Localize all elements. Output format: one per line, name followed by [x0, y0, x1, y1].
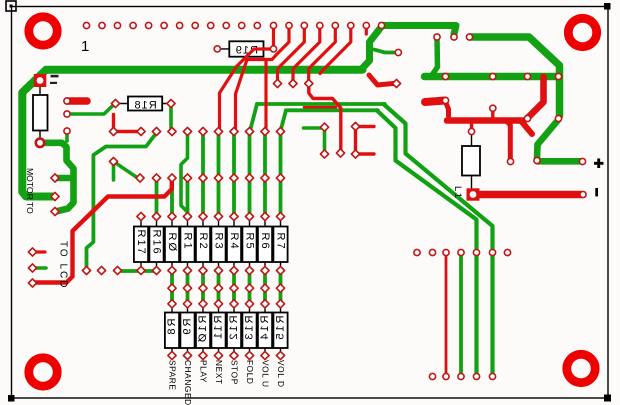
pad 398,52.5: [395, 49, 401, 55]
svg-text:1: 1: [81, 38, 89, 55]
svg-text:R6: R6: [259, 233, 271, 251]
resistor R3: [211, 227, 225, 263]
wire green branch to pad (55,178): [56, 175, 74, 182]
corner mark BR: [604, 395, 611, 402]
svg-text:NEXT: NEXT: [214, 360, 224, 385]
wire red stub to resistor top pad: [470, 121, 473, 129]
corner mark TL: [6, 1, 16, 11]
svg-text:R13: R13: [244, 316, 256, 342]
resistor R8: [165, 313, 179, 349]
wire green right elbow to plus pad: [537, 120, 581, 162]
svg-text:VOL U: VOL U: [261, 360, 271, 388]
svg-text:R12: R12: [228, 316, 240, 342]
wire red stub above pad 113,131: [112, 115, 115, 130]
mid pads y83 group: [273, 79, 281, 87]
wire green col verticals y178-216: [157, 180, 281, 214]
resistor R17: [134, 227, 148, 263]
resistor row2 leads: [172, 305, 281, 353]
wire red blob drop to bus: [446, 102, 449, 116]
mounting hole bottom-left: [29, 358, 57, 386]
resistor R2: [196, 227, 210, 263]
corner mark TR: [604, 3, 611, 10]
left column pads: [64, 98, 70, 104]
wire red C-shape: [356, 127, 375, 155]
wire red p13 rail y60 to pad 235,132: [236, 27, 290, 129]
wire red bus y120: [447, 117, 524, 124]
wire green y111 rail to right pair inner: [286, 108, 378, 112]
R19 pads: [214, 46, 220, 52]
resistor R16: [149, 227, 163, 263]
resistor R9: [180, 313, 194, 349]
svg-text:STOP: STOP: [230, 360, 240, 385]
svg-text:R3: R3: [212, 233, 224, 251]
pad row y131.5: [109, 127, 117, 135]
wire green jog line col R1: [181, 134, 188, 214]
wire green columns rows A-B-C: [172, 272, 281, 303]
resistor R4: [227, 227, 241, 263]
resistor R1: [180, 227, 194, 263]
svg-text:R1Ø: R1Ø: [197, 316, 209, 345]
wire green col verticals y132-177: [203, 134, 281, 175]
wire green stub pad (32,268): [33, 266, 47, 270]
resistor right vertical body: [462, 146, 480, 176]
wire green pad (67,114) to R18 left pad: [67, 104, 115, 115]
pad row A y270.5: [82, 266, 90, 274]
wire red fork down to pad 510,161: [506, 121, 510, 159]
svg-text:FOLD: FOLD: [245, 360, 255, 385]
pad row B y287.5: [168, 284, 176, 292]
pad row y216.5: [137, 212, 145, 220]
wire red p17: [320, 27, 351, 74]
text minus: [595, 188, 598, 196]
R18 pads: [111, 99, 119, 107]
svg-text:R18: R18: [134, 100, 157, 112]
wire red pads 113-141 link: [114, 130, 142, 133]
wire green drop x325 from y111 rail: [304, 128, 325, 151]
pads right top: [434, 34, 440, 40]
pads x55: [51, 174, 59, 182]
mounting hole bottom-right: [567, 354, 595, 382]
resistor R10: [196, 313, 210, 349]
resistor R12: [227, 313, 241, 349]
square pad right: [467, 188, 480, 200]
svg-text:R1: R1: [181, 233, 193, 251]
corner mark BL: [8, 395, 15, 402]
resistor R13: [242, 313, 256, 349]
wire green pad19 bus to pad (454,37): [382, 26, 457, 35]
svg-text:R9: R9: [182, 319, 194, 337]
wire red p12 to R19: [272, 27, 275, 46]
wire red right blob bar: [425, 101, 445, 103]
svg-text:R7: R7: [274, 233, 286, 251]
resistor TL vertical body: [33, 95, 48, 131]
wire red x446 vertical: [445, 255, 448, 374]
svg-text:R11: R11: [213, 316, 225, 341]
wire green stub pad67-131 to bus: [65, 133, 69, 141]
svg-text:R16: R16: [150, 230, 162, 256]
pads right middle: [490, 105, 496, 111]
resistor row1 leads: [141, 217, 281, 268]
svg-text:CHANGED: CHANGED: [183, 360, 193, 405]
top pad row: [83, 22, 89, 28]
wire red blob (67,101): [67, 97, 87, 105]
svg-text:R4: R4: [228, 233, 240, 251]
resistor R0: [165, 227, 179, 263]
svg-text:RØ: RØ: [166, 233, 178, 254]
mounting hole top-left: [29, 17, 57, 45]
wire green x461 vertical: [459, 255, 463, 374]
wire green bus right end up to pad19: [361, 27, 382, 70]
resistor R6: [258, 227, 272, 263]
svg-text:R5: R5: [243, 233, 255, 251]
wire green pad113,161 branches: [114, 162, 138, 181]
resistor R19: [229, 41, 263, 56]
left trio pads: [28, 248, 36, 256]
wire red p14 to pad 293,83: [278, 27, 305, 80]
svg-text:R14: R14: [259, 316, 271, 342]
wire green horizontal y271: [118, 269, 159, 273]
wire red stub down-right: [522, 122, 532, 134]
tiny label marks near square pad: [51, 75, 59, 78]
wire green y104 rail to right pair outer: [257, 102, 385, 106]
wire red hanging vertical to pad 265,132: [264, 60, 267, 129]
resistor R7: [273, 227, 287, 263]
wire red stub pad 492,108: [491, 110, 494, 118]
wire green y146 line long to pad 86,270: [87, 134, 157, 269]
wire green right top run: [471, 37, 560, 116]
wire green big-pad bus with 3-shape: [40, 143, 74, 212]
wire red hook pad308 to pad341,153: [309, 85, 341, 150]
svg-text:MOTOR TO: MOTOR TO: [25, 168, 35, 214]
pad row y376.5: [429, 373, 435, 379]
resistor R18: [128, 97, 162, 111]
svg-text:PLAY: PLAY: [199, 360, 209, 383]
svg-text:R17: R17: [135, 230, 147, 256]
resistor R5: [242, 227, 256, 263]
wire red p18: [365, 27, 368, 34]
pad row C y303: [168, 300, 176, 308]
wire red R19 to pad 218,132: [220, 49, 272, 129]
svg-text:TO LCD: TO LCD: [58, 241, 69, 290]
text plus: [594, 159, 604, 169]
wire red diag up to x544 vertical: [528, 77, 544, 118]
svg-text:R15: R15: [275, 316, 287, 342]
svg-text:R2: R2: [197, 233, 209, 251]
square pad top-left: [34, 74, 47, 87]
wire red TO LCD trace: [35, 181, 172, 283]
big pad left: [36, 139, 44, 147]
resistor R14: [258, 313, 272, 349]
wire red p15 to pad 308,83: [293, 27, 320, 80]
wire green stub to pad (398,52.5): [374, 50, 397, 53]
mounting hole top-right: [568, 18, 596, 46]
pad row y178: [136, 174, 144, 182]
pad row bottom y355.5: [168, 351, 176, 359]
svg-text:VOL D: VOL D: [276, 360, 286, 388]
wire red sliver between rails: [304, 106, 336, 109]
wire red minus bus y194.5: [478, 191, 581, 199]
svg-text:L1: L1: [452, 186, 463, 200]
wire green R18 right pad down: [169, 106, 173, 129]
resistor R15: [273, 313, 287, 349]
pads on bus y76.5: [442, 73, 448, 79]
wire green bus y76.5: [425, 73, 560, 81]
wire red p16 diagonal: [309, 27, 336, 80]
pad 113,161: [109, 157, 117, 165]
svg-text:R8: R8: [166, 319, 178, 337]
wire green x436 drop to bus: [431, 39, 438, 77]
pad row y252.5: [414, 249, 420, 255]
wire red p18 lower bar to pad 396,83: [369, 75, 393, 85]
pads hook and C: [320, 123, 328, 131]
resistor R11: [211, 313, 225, 349]
svg-text:SPARE: SPARE: [168, 360, 178, 391]
wire red stub pad (32,252): [33, 250, 46, 253]
wire green motor bus top-left: [22, 70, 362, 197]
